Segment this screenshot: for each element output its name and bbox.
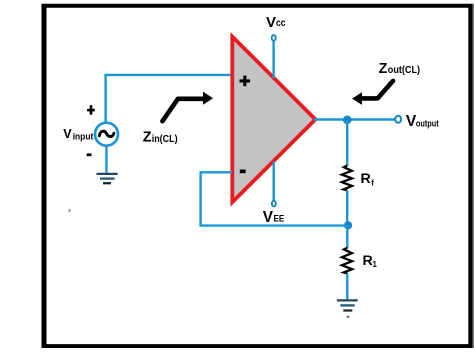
svg-text:1: 1 bbox=[373, 260, 378, 269]
svg-text:V: V bbox=[63, 127, 72, 141]
node: feedback junction bbox=[344, 221, 352, 229]
resistor Rf bbox=[342, 166, 352, 191]
svg-text:in(CL): in(CL) bbox=[152, 134, 178, 145]
node: output junction bbox=[343, 116, 352, 125]
polarity - of source bbox=[87, 153, 92, 156]
ground GND1 bbox=[97, 174, 118, 183]
wire: feedback node to R1 bbox=[346, 225, 348, 248]
wire: source to ground bbox=[105, 146, 107, 174]
op-amp + input marker bbox=[240, 76, 251, 87]
ground GND2 bbox=[337, 300, 358, 317]
svg-text:R: R bbox=[361, 171, 371, 187]
wire: R1 to ground bbox=[346, 273, 348, 300]
wire: Vcc to op-amp bbox=[272, 41, 274, 78]
svg-text:R: R bbox=[363, 253, 373, 269]
svg-text:out(CL): out(CL) bbox=[388, 65, 420, 76]
svg-text:Z: Z bbox=[143, 129, 152, 145]
op-amp U1 bbox=[232, 37, 315, 203]
svg-text:EE: EE bbox=[274, 214, 285, 225]
svg-text:V: V bbox=[263, 209, 274, 226]
wire: op-amp to VEE bbox=[273, 162, 275, 201]
svg-text:f: f bbox=[371, 179, 374, 188]
terminal VEE bbox=[272, 201, 276, 207]
wire: source to non-inverting input bbox=[106, 75, 232, 123]
svg-text:cc: cc bbox=[276, 18, 286, 29]
svg-text:V: V bbox=[266, 14, 276, 31]
stray mark bbox=[69, 209, 71, 212]
svg-text:output: output bbox=[416, 118, 439, 128]
wire: Rf to feedback node bbox=[346, 190, 348, 225]
wire: output node to Rf bbox=[346, 119, 348, 166]
arrow Zout(CL) bbox=[363, 81, 394, 99]
arrow Zin(CL) bbox=[162, 99, 203, 121]
wire: feedback loop to inverting input bbox=[201, 172, 348, 225]
terminal Vcc bbox=[272, 35, 276, 41]
polarity + of source bbox=[87, 105, 95, 114]
svg-text:Z: Z bbox=[379, 61, 388, 77]
svg-text:input: input bbox=[73, 131, 94, 141]
op-amp - input marker bbox=[240, 170, 246, 174]
terminal Voutput bbox=[395, 116, 401, 123]
resistor R1 bbox=[342, 248, 352, 274]
wire: output bbox=[314, 118, 395, 120]
voltage source Vinput bbox=[95, 123, 118, 146]
